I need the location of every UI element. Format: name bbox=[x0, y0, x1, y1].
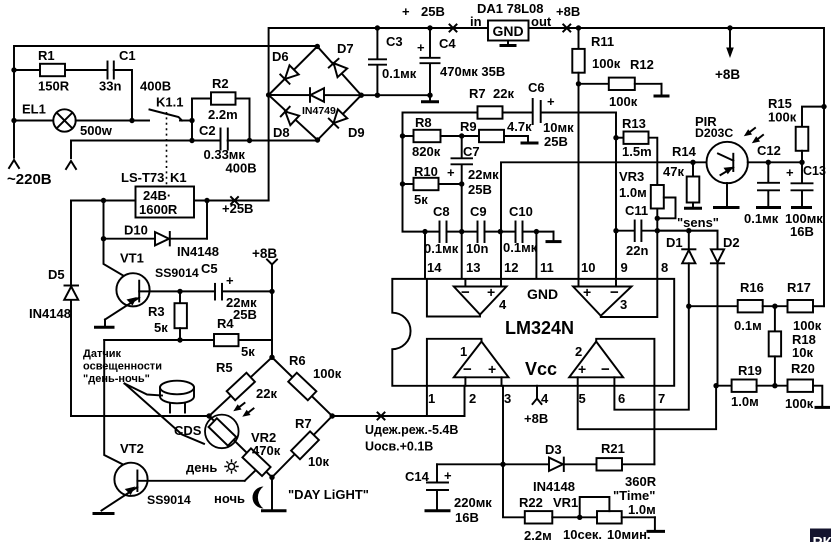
svg-text:C13: C13 bbox=[803, 164, 826, 178]
resistor R19 bbox=[716, 385, 732, 387]
diode D2 bbox=[711, 249, 724, 262]
node bridge top bbox=[315, 44, 320, 49]
regulator DA1 78L08 bbox=[488, 21, 529, 41]
svg-text:13: 13 bbox=[466, 260, 480, 275]
capacitor C9 bbox=[477, 222, 479, 243]
svg-text:10к: 10к bbox=[792, 345, 813, 360]
wire VT2 base branch bbox=[104, 340, 136, 471]
resistor R17 bbox=[788, 300, 814, 312]
node R16/R17/R18 bbox=[772, 304, 777, 309]
potentiometer VR1 bbox=[597, 511, 622, 523]
ground VT2 emitter bbox=[93, 512, 115, 515]
x-mark before regulator bbox=[450, 25, 457, 32]
svg-text:in: in bbox=[470, 14, 482, 29]
svg-text:"DAY LiGHT": "DAY LiGHT" bbox=[288, 487, 369, 502]
svg-text:10сек.: 10сек. bbox=[563, 527, 602, 542]
diode D1 bbox=[688, 231, 690, 250]
svg-text:8: 8 bbox=[661, 260, 668, 275]
svg-text:−: − bbox=[601, 361, 610, 378]
svg-text:33n: 33n bbox=[99, 79, 121, 94]
resistor R8 bbox=[414, 130, 441, 142]
svg-text:6: 6 bbox=[618, 391, 625, 406]
svg-text:R14: R14 bbox=[672, 144, 697, 159]
svg-text:360R: 360R bbox=[625, 474, 657, 489]
svg-text:12: 12 bbox=[504, 260, 518, 275]
transistor VT1 bbox=[116, 273, 149, 306]
wire CDS row to left rail bbox=[71, 415, 209, 417]
resistor R7 bridge bbox=[291, 431, 319, 459]
svg-text:D7: D7 bbox=[337, 41, 354, 56]
svg-text:R11: R11 bbox=[591, 34, 614, 49]
lamp EL1 bbox=[53, 109, 75, 131]
terminal AC line 1 bbox=[9, 160, 19, 168]
svg-text:47к: 47к bbox=[663, 164, 684, 179]
svg-text:4.7к: 4.7к bbox=[507, 119, 532, 134]
photoresistor CDS bbox=[209, 418, 237, 445]
svg-text:22n: 22n bbox=[626, 243, 648, 258]
wire +25V vertical and top rail bbox=[269, 28, 824, 306]
svg-text:100к: 100к bbox=[592, 56, 621, 71]
callout lines bbox=[125, 384, 163, 396]
svg-text:5к: 5к bbox=[154, 320, 168, 335]
svg-text:5: 5 bbox=[579, 391, 586, 406]
svg-text:14: 14 bbox=[427, 260, 442, 275]
svg-text:9: 9 bbox=[621, 260, 628, 275]
svg-text:~220В: ~220В bbox=[7, 171, 52, 188]
op-amp U1a triangle bbox=[454, 342, 509, 378]
resistor R6 bbox=[288, 373, 316, 401]
svg-text:16В: 16В bbox=[455, 510, 479, 525]
svg-text:SS9014: SS9014 bbox=[155, 266, 199, 280]
svg-text:Uдеж.реж.-5.4В: Uдеж.реж.-5.4В bbox=[365, 423, 458, 437]
x-mark +25B bbox=[231, 197, 238, 204]
svg-text:R6: R6 bbox=[289, 353, 306, 368]
svg-text:1.5m: 1.5m bbox=[622, 144, 652, 159]
svg-text:100к: 100к bbox=[793, 318, 822, 333]
svg-text:"sens": "sens" bbox=[677, 215, 719, 230]
node pin12 bbox=[498, 229, 503, 234]
wire pin11 up bbox=[535, 232, 537, 279]
svg-text:0.1мк: 0.1мк bbox=[424, 241, 459, 256]
svg-text:+: + bbox=[402, 4, 410, 19]
wire left filter rail bbox=[403, 113, 478, 232]
svg-text:+8В: +8В bbox=[715, 67, 740, 82]
wire AC line2 row bbox=[71, 141, 220, 159]
ground bridge bottom bbox=[271, 477, 273, 509]
svg-text:C1: C1 bbox=[119, 48, 136, 63]
svg-text:+: + bbox=[417, 40, 425, 55]
ground after R12 bbox=[661, 84, 663, 95]
svg-text:C5: C5 bbox=[201, 261, 218, 276]
svg-text:0.1мк: 0.1мк bbox=[744, 211, 779, 226]
resistor R14 bbox=[692, 162, 694, 176]
node R2/C2 right bbox=[247, 138, 252, 143]
svg-text:C7: C7 bbox=[463, 144, 480, 159]
svg-text:VR3: VR3 bbox=[619, 169, 644, 184]
node pin14 bbox=[422, 229, 427, 234]
potentiometer VR2 bbox=[242, 448, 270, 476]
svg-text:IN4148: IN4148 bbox=[177, 244, 219, 259]
resistor R5 bbox=[227, 373, 255, 400]
node R13 left bbox=[613, 135, 618, 140]
resistor R20 bbox=[788, 380, 814, 392]
capacitor C11 bbox=[616, 230, 634, 232]
switch K1.1 blade bbox=[150, 110, 183, 121]
svg-text:10к: 10к bbox=[308, 454, 329, 469]
svg-text:R12: R12 bbox=[630, 57, 654, 72]
svg-text:24В·: 24В· bbox=[143, 188, 171, 203]
node bridge bottom vertex bbox=[269, 475, 274, 480]
resistor R12 bbox=[579, 83, 609, 85]
svg-text:2.2m: 2.2m bbox=[208, 107, 238, 122]
relay wire +25 row bbox=[194, 200, 269, 202]
node +8V rail R11 bbox=[576, 25, 581, 30]
svg-text:100к: 100к bbox=[609, 94, 638, 109]
wire VT2 out to bridge bbox=[245, 468, 259, 481]
svg-text:SS9014: SS9014 bbox=[147, 493, 191, 507]
arrows light onto CDS bbox=[237, 403, 245, 409]
svg-text:25В: 25В bbox=[544, 134, 568, 149]
x-mark test point bbox=[378, 413, 385, 420]
relay coil K1 box bbox=[136, 187, 195, 218]
svg-text:D6: D6 bbox=[272, 49, 289, 64]
wire pin14 up bbox=[424, 232, 426, 279]
svg-text:1: 1 bbox=[428, 391, 435, 406]
resistor R16 bbox=[689, 305, 738, 307]
svg-text:R16: R16 bbox=[740, 280, 764, 295]
diode D9 bbox=[329, 109, 347, 127]
svg-text:C10: C10 bbox=[509, 204, 533, 219]
svg-text:R13: R13 bbox=[622, 116, 646, 131]
svg-text:+: + bbox=[786, 165, 794, 180]
wire PIR out row bbox=[748, 161, 802, 163]
svg-text:0.1мк: 0.1мк bbox=[382, 66, 417, 81]
svg-text:470мк 35В: 470мк 35В bbox=[440, 64, 505, 79]
svg-text:400В: 400В bbox=[140, 79, 171, 94]
capacitor C10 bbox=[515, 222, 517, 243]
svg-text:C8: C8 bbox=[433, 204, 450, 219]
svg-text:+8В: +8В bbox=[524, 411, 548, 426]
svg-text:R22: R22 bbox=[519, 495, 543, 510]
wire gnd rail y95 bbox=[361, 94, 430, 96]
wire relay row to left rail bbox=[71, 200, 136, 202]
svg-text:R5: R5 bbox=[216, 360, 233, 375]
diode D7 bbox=[329, 59, 347, 77]
node D1/R16/pin6 bbox=[686, 304, 691, 309]
node bridge bottom bbox=[315, 137, 320, 142]
ground under C4 bbox=[429, 95, 431, 101]
svg-text:−: − bbox=[463, 361, 472, 378]
diode D5 bbox=[65, 285, 79, 287]
svg-text:1: 1 bbox=[460, 344, 467, 359]
svg-text:C9: C9 bbox=[470, 204, 487, 219]
wire pin13 up bbox=[461, 232, 463, 279]
wire switch to R2 node bbox=[180, 120, 192, 122]
svg-text:K1.1: K1.1 bbox=[156, 95, 183, 110]
zener diode IN4749 bbox=[311, 88, 325, 102]
transistor VT2 bbox=[114, 463, 147, 496]
wire lamp to switch bbox=[76, 120, 149, 122]
node pin11 bbox=[534, 229, 539, 234]
svg-text:GND: GND bbox=[493, 23, 524, 39]
svg-text:D2: D2 bbox=[723, 235, 740, 250]
node R1 row left bbox=[11, 67, 16, 72]
ground after VR1 bbox=[654, 517, 656, 530]
svg-text:5к: 5к bbox=[414, 192, 428, 207]
svg-text:+: + bbox=[487, 284, 495, 300]
svg-text:IN4148: IN4148 bbox=[29, 306, 71, 321]
svg-text:22к: 22к bbox=[256, 386, 277, 401]
wire +8B vertical to bridge top bbox=[271, 265, 273, 358]
svg-text:500w: 500w bbox=[80, 123, 113, 138]
svg-text:R3: R3 bbox=[148, 304, 165, 319]
op-amp U1b triangle bbox=[569, 342, 623, 378]
svg-text:R1: R1 bbox=[38, 48, 55, 63]
wire pin12 up and PIR row bbox=[501, 162, 707, 279]
svg-text:2: 2 bbox=[469, 391, 476, 406]
node pin3/D3 bbox=[500, 462, 505, 467]
op-amp U1c triangle bbox=[573, 287, 631, 316]
svg-text:C14: C14 bbox=[405, 469, 430, 484]
svg-text:0.1м: 0.1м bbox=[734, 318, 762, 333]
svg-text:C6: C6 bbox=[528, 80, 545, 95]
wire left rail x71 down bbox=[70, 201, 72, 417]
ground after R9 bbox=[527, 136, 529, 142]
svg-text:16В: 16В bbox=[790, 224, 814, 239]
svg-text:+25В: +25В bbox=[222, 201, 253, 216]
wire VT1 base branch bbox=[104, 239, 137, 284]
watermark logo bbox=[810, 529, 831, 542]
op-amp U1d triangle bbox=[454, 287, 507, 315]
svg-text:+: + bbox=[488, 361, 496, 377]
capacitor C1 bbox=[107, 62, 109, 79]
resistor R9 bbox=[479, 130, 504, 142]
svg-text:4: 4 bbox=[499, 297, 507, 312]
capacitor C6 bbox=[532, 99, 534, 124]
wire pin6 loop bbox=[614, 306, 688, 410]
diode D3 bbox=[549, 458, 563, 471]
potentiometer VR3 bbox=[651, 185, 664, 209]
svg-text:C2: C2 bbox=[199, 123, 216, 138]
capacitor C12 bbox=[767, 162, 769, 181]
svg-text:10: 10 bbox=[581, 260, 595, 275]
svg-text:D3: D3 bbox=[545, 442, 562, 457]
svg-text:220мк: 220мк bbox=[454, 495, 492, 510]
svg-text:R19: R19 bbox=[738, 363, 762, 378]
svg-text:out: out bbox=[531, 14, 552, 29]
resistor R13 bbox=[616, 137, 624, 139]
svg-text:3: 3 bbox=[504, 391, 511, 406]
svg-text:D1: D1 bbox=[666, 235, 683, 250]
svg-text:освещенности: освещенности bbox=[83, 361, 162, 373]
op-amp IC LM324N body bbox=[392, 279, 674, 386]
resistor R18 bbox=[774, 306, 776, 331]
capacitor C14 bbox=[436, 464, 438, 481]
svg-text:25В: 25В bbox=[233, 307, 257, 322]
svg-text:РК: РК bbox=[813, 534, 831, 542]
PIR sensor D203C bbox=[707, 142, 748, 183]
svg-text:820к: 820к bbox=[412, 144, 441, 159]
x-mark after regulator bbox=[563, 25, 570, 32]
node C7/R10 bbox=[459, 181, 464, 186]
svg-text:"Time": "Time" bbox=[613, 488, 655, 503]
node +8V rail arrow bbox=[727, 25, 732, 30]
svg-text:−: − bbox=[461, 284, 470, 301]
wire pin1 pin2 to test row bbox=[426, 386, 428, 416]
svg-text:10n: 10n bbox=[466, 241, 488, 256]
svg-text:10мк: 10мк bbox=[543, 120, 574, 135]
node bridge top vertex bbox=[269, 355, 274, 360]
svg-text:EL1: EL1 bbox=[22, 102, 46, 117]
resistor R11 bbox=[578, 28, 580, 49]
svg-text:D9: D9 bbox=[348, 125, 365, 140]
node VR1 wiper bbox=[577, 515, 582, 520]
svg-text:+: + bbox=[547, 94, 555, 109]
sensor bridge diamond wires bbox=[209, 357, 332, 477]
svg-text:7: 7 bbox=[658, 391, 665, 406]
wire lamp row bbox=[14, 120, 54, 122]
svg-text:R4: R4 bbox=[217, 316, 234, 331]
svg-text:R17: R17 bbox=[787, 280, 811, 295]
svg-text:2.2м: 2.2м bbox=[524, 528, 552, 542]
svg-text:D10: D10 bbox=[124, 223, 148, 238]
ground under DA1 bbox=[507, 41, 509, 45]
svg-text:Uосв.+0.1В: Uосв.+0.1В bbox=[365, 440, 433, 454]
wire R1 row bbox=[14, 69, 106, 71]
svg-text:ночь: ночь bbox=[214, 491, 245, 506]
svg-text:R9: R9 bbox=[460, 119, 477, 134]
svg-text:C3: C3 bbox=[386, 34, 403, 49]
svg-text:C4: C4 bbox=[439, 36, 456, 51]
node lamp row left bbox=[11, 118, 16, 123]
svg-text:10мин.: 10мин. bbox=[607, 527, 651, 542]
svg-text:R2: R2 bbox=[212, 76, 229, 91]
resistor R4 bbox=[104, 339, 214, 341]
node R14 top bbox=[690, 160, 695, 165]
node R10 left bbox=[400, 181, 405, 186]
capacitor C2 bbox=[220, 129, 222, 150]
wire C1 to lamp row bbox=[114, 70, 132, 121]
svg-text:+: + bbox=[226, 273, 234, 288]
svg-text:VT1: VT1 bbox=[120, 251, 144, 266]
svg-text:22к: 22к bbox=[493, 86, 514, 101]
capacitor C3 bbox=[376, 28, 378, 58]
svg-text:1.0м: 1.0м bbox=[619, 185, 647, 200]
resistor R1 bbox=[40, 64, 65, 76]
svg-text:IN4749: IN4749 bbox=[302, 105, 336, 117]
svg-text:D203C: D203C bbox=[695, 126, 733, 140]
terminal +8B pin4 bbox=[536, 386, 538, 398]
svg-text:R8: R8 bbox=[415, 115, 432, 130]
node bridge left vertex CDS bbox=[206, 413, 211, 418]
svg-text:2: 2 bbox=[575, 344, 582, 359]
resistor R3 bbox=[179, 291, 181, 303]
resistor R2 bbox=[192, 98, 211, 100]
resistor R21 bbox=[597, 458, 623, 470]
wire pin7 down to R21 bbox=[653, 386, 655, 465]
svg-text:−: − bbox=[610, 284, 619, 301]
wire sens row to D1 D2 bbox=[657, 231, 717, 250]
svg-text:+: + bbox=[444, 468, 452, 483]
svg-text:470к: 470к bbox=[252, 443, 281, 458]
wire D3 row bbox=[437, 463, 549, 465]
resistor R7 bbox=[478, 106, 503, 118]
node bridge right vertex bbox=[330, 413, 335, 418]
svg-text:Vcc: Vcc bbox=[525, 359, 557, 379]
wire R2 left vertical bbox=[191, 99, 193, 141]
diode D6 bbox=[280, 65, 298, 83]
svg-text:Датчик: Датчик bbox=[83, 348, 121, 360]
wire pin13 chain down bbox=[461, 184, 463, 232]
node relay left branch bbox=[101, 198, 106, 203]
svg-text:100к: 100к bbox=[313, 366, 342, 381]
diode D10 bbox=[155, 232, 169, 245]
resistor R10 bbox=[414, 178, 439, 190]
svg-text:R20: R20 bbox=[791, 361, 815, 376]
node VT1 collector / R3 bbox=[177, 289, 182, 294]
arrows light onto PIR bbox=[747, 128, 755, 134]
svg-text:R7: R7 bbox=[295, 416, 312, 431]
wire pin3 down to timer row bbox=[503, 386, 525, 518]
svg-text:22мк: 22мк bbox=[468, 167, 499, 182]
svg-text:1.0м: 1.0м bbox=[731, 394, 759, 409]
node R18/R19/R20 bbox=[772, 383, 777, 388]
capacitor C4 bbox=[429, 28, 431, 57]
svg-text:IN4148: IN4148 bbox=[533, 479, 575, 494]
node pin13 bbox=[459, 229, 464, 234]
svg-text:VT2: VT2 bbox=[120, 441, 144, 456]
svg-text:D5: D5 bbox=[48, 267, 65, 282]
svg-text:"день-ночь": "день-ночь" bbox=[83, 373, 150, 385]
svg-text:D8: D8 bbox=[273, 125, 290, 140]
node switch/C2 bbox=[189, 138, 194, 143]
terminal AC line 2 bbox=[66, 161, 76, 169]
node bridge left bbox=[266, 92, 271, 97]
svg-text:K1: K1 bbox=[170, 170, 187, 185]
diode D10 row bbox=[103, 201, 105, 239]
wire right vertex to op-amp pins bbox=[332, 415, 464, 417]
node C11 left bbox=[613, 228, 618, 233]
node relay right branch bbox=[204, 198, 209, 203]
wire R13 branch vertical bbox=[615, 113, 617, 280]
node bridge right bbox=[359, 93, 364, 98]
capacitor C8 bbox=[439, 222, 441, 243]
svg-text:+: + bbox=[578, 361, 586, 377]
node D2/R19/pin5 bbox=[713, 383, 718, 388]
svg-text:+: + bbox=[447, 165, 455, 180]
svg-text:1600R: 1600R bbox=[139, 202, 178, 217]
ground VT1 emitter bbox=[104, 320, 106, 327]
svg-text:11: 11 bbox=[540, 260, 554, 275]
node sens VR3/pin8 bbox=[655, 228, 660, 233]
svg-text:1.0м: 1.0м bbox=[628, 502, 656, 517]
svg-text:R7: R7 bbox=[469, 86, 486, 101]
capacitor C13 bbox=[801, 162, 803, 182]
svg-text:25В: 25В bbox=[421, 4, 445, 19]
wire pin5 loop bbox=[578, 386, 716, 430]
node R8/R9/C7 bbox=[459, 133, 464, 138]
svg-text:100к: 100к bbox=[785, 396, 814, 411]
node C12 bbox=[766, 160, 771, 165]
ground after C10 bbox=[553, 232, 555, 241]
svg-text:LS-T73: LS-T73 bbox=[121, 170, 164, 185]
capacitor C7 bbox=[461, 136, 463, 157]
svg-text:VR1: VR1 bbox=[553, 495, 578, 510]
svg-text:3: 3 bbox=[620, 297, 627, 312]
node R11/R12 bbox=[576, 81, 581, 86]
node C13/R15 bbox=[799, 160, 804, 165]
wire top-left rail to bridge top vertex bbox=[14, 46, 317, 158]
